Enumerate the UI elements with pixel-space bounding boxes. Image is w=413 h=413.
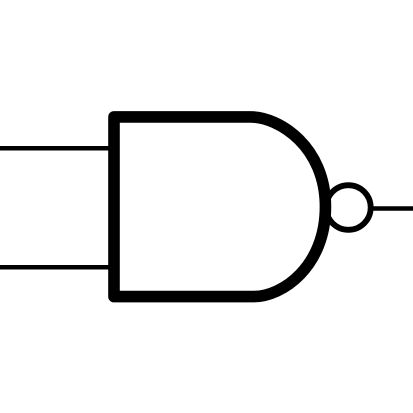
wire input B [0, 265, 114, 270]
inversion bubble [326, 185, 371, 230]
NAND gate U1 body [114, 117, 325, 297]
wire input A [0, 146, 114, 151]
wire output Y [369, 206, 413, 211]
